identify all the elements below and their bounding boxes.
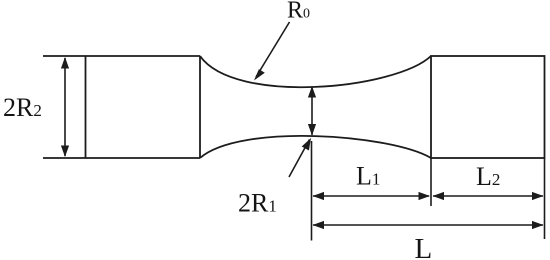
waist arrowhead up (308, 86, 316, 98)
R0 leader line (256, 22, 290, 77)
svg-text:L2: L2 (476, 162, 500, 191)
svg-text:2R2: 2R2 (3, 93, 42, 122)
2R1 leader line (289, 140, 310, 178)
top fillet curve R0 (200, 56, 431, 87)
2R2 arrowhead up (61, 57, 69, 69)
waist 2R1 dimension line (311, 87, 313, 135)
left grip rectangle left edge (85, 56, 87, 158)
svg-text:L1: L1 (356, 162, 380, 191)
L2 arrowhead left (433, 192, 445, 200)
L1 dimension line (313, 195, 429, 197)
extension line at right edge x=544.5 (544, 158, 546, 239)
L dimension line (313, 224, 543, 226)
L2 dimension line (433, 195, 543, 197)
specimen bottom edge line (with left extension) (43, 157, 200, 159)
extension line at x=431 (430, 158, 432, 206)
L arrowhead right (532, 221, 544, 229)
L arrowhead left (313, 221, 325, 229)
svg-text:L: L (415, 233, 433, 260)
right grip rectangle (431, 56, 545, 158)
L1 arrowhead left (313, 192, 325, 200)
specimen top edge line (with left extension) (43, 55, 200, 57)
2R1 leader arrowhead (302, 138, 311, 151)
extension line at waist x=311.5 (311, 141, 313, 241)
svg-text:2R1: 2R1 (238, 189, 277, 218)
R0 leader arrowhead (254, 69, 265, 80)
2R2 dimension line (64, 58, 66, 156)
L2 arrowhead right (532, 192, 544, 200)
bottom fillet curve (200, 136, 431, 158)
2R2 arrowhead down (61, 146, 69, 158)
svg-text:R0: R0 (287, 0, 310, 24)
L1 arrowhead right (419, 192, 431, 200)
left grip rectangle right edge (199, 56, 201, 158)
waist arrowhead down (308, 124, 316, 136)
